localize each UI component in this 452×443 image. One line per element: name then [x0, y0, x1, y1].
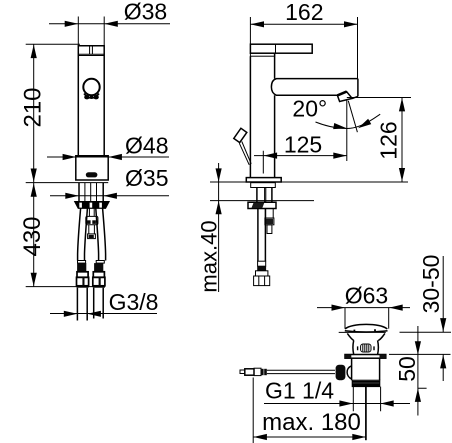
center fitting box	[86, 216, 98, 224]
svg-text:126: 126	[376, 121, 402, 159]
pull rod horizontal	[267, 370, 335, 373]
dim Ø35	[50, 195, 169, 197]
angle leader arc	[316, 114, 381, 128]
dim max.40	[218, 163, 220, 292]
svg-text:G3/8: G3/8	[109, 289, 159, 315]
lever handle side	[250, 44, 312, 53]
valve body upper	[353, 340, 378, 354]
svg-text:50: 50	[394, 356, 420, 382]
sensor window	[86, 172, 98, 177]
thread extension lines	[353, 387, 380, 412]
nut stack side	[266, 209, 274, 219]
aerator tilted	[337, 92, 352, 102]
pop-up rod side	[234, 128, 247, 142]
right hose end band	[93, 272, 104, 278]
dim 30-50	[389, 256, 451, 381]
right hose end collar	[96, 261, 104, 264]
dome waist	[347, 333, 385, 340]
drain body lower	[352, 358, 380, 380]
svg-text:125: 125	[284, 132, 322, 158]
dim 125	[254, 151, 347, 174]
svg-text:max. 180: max. 180	[262, 409, 361, 436]
svg-text:Ø35: Ø35	[125, 165, 168, 191]
dim max. 180	[253, 378, 366, 443]
body side	[250, 53, 274, 177]
shank upper side	[251, 183, 276, 188]
svg-text:20°: 20°	[292, 96, 327, 122]
center rod tube	[89, 208, 94, 216]
right hose	[96, 208, 106, 260]
tailpiece	[365, 387, 367, 441]
left hose	[78, 208, 88, 260]
dim 162	[250, 17, 357, 78]
knob lower collar	[84, 94, 99, 99]
faucet body front	[78, 46, 104, 156]
clamp washer front	[75, 202, 110, 209]
dim G1 1/4	[264, 403, 410, 405]
hose end level extension line	[26, 286, 96, 288]
svg-text:max.40: max.40	[196, 220, 221, 292]
rod ball joint	[336, 365, 346, 381]
dim 430	[33, 183, 35, 287]
deck bottom line	[210, 200, 314, 202]
threaded shank front	[79, 183, 103, 202]
clamp washer side	[248, 202, 276, 208]
dim 126	[347, 98, 411, 182]
svg-text:210: 210	[19, 87, 46, 127]
body cap seam lines	[78, 46, 104, 56]
center lower collar	[88, 234, 96, 239]
handle knob front	[83, 79, 99, 95]
deck surface line	[210, 181, 408, 183]
hose side	[258, 209, 266, 262]
svg-text:Ø38: Ø38	[124, 0, 167, 25]
right hose nut	[93, 277, 105, 286]
hose side end collar	[258, 261, 266, 266]
outlet 20 deg axis	[348, 101, 357, 132]
dim Ø48	[47, 156, 169, 158]
thread band	[352, 380, 380, 386]
dim Ø38	[49, 17, 170, 46]
shank side	[257, 188, 272, 203]
spout side	[271, 79, 358, 97]
outlet axis vertical	[346, 100, 348, 162]
svg-text:430: 430	[19, 216, 46, 256]
left hose nut	[77, 277, 89, 286]
joint socket	[347, 366, 352, 379]
base front	[76, 156, 108, 180]
center rod tube 2	[89, 225, 95, 234]
handle collar	[250, 53, 274, 56]
base plate side	[246, 178, 281, 182]
left hose end band	[77, 272, 88, 278]
dim 50	[418, 326, 427, 416]
svg-text:G1 1/4: G1 1/4	[265, 378, 334, 404]
right G3/8 tail	[94, 288, 104, 319]
overflow slot	[361, 344, 371, 352]
svg-text:Ø63: Ø63	[345, 283, 388, 309]
pull rod tip	[240, 370, 245, 374]
drain dome	[345, 324, 387, 329]
left hose end collar	[78, 261, 86, 264]
flange	[345, 355, 386, 359]
svg-text:Ø48: Ø48	[125, 133, 168, 159]
dim G3/8	[50, 313, 157, 315]
dim 210	[26, 44, 80, 182]
svg-text:30-50: 30-50	[418, 255, 444, 314]
mounting surface line (front)	[26, 182, 109, 184]
svg-text:162: 162	[285, 0, 323, 25]
dim Ø63	[317, 308, 410, 329]
left G3/8 tail	[77, 288, 87, 321]
